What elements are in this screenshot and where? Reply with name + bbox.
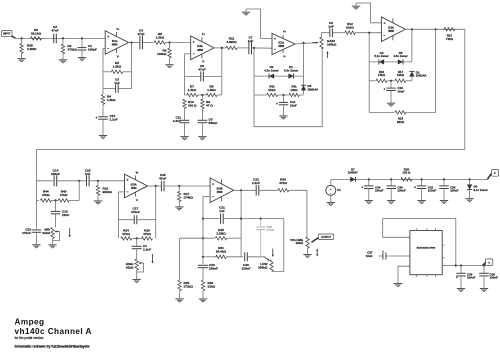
svg-text:47kΩ: 47kΩ <box>122 232 130 236</box>
svg-text:22uF: 22uF <box>290 103 297 107</box>
svg-text:IC2a: IC2a <box>278 40 284 44</box>
svg-text:IC3A: IC3A <box>131 182 137 186</box>
svg-text:IC2b: IC2b <box>388 26 394 30</box>
svg-text:1N4007: 1N4007 <box>348 171 359 175</box>
svg-text:100nF: 100nF <box>397 189 406 193</box>
svg-text:10kΩ: 10kΩ <box>397 73 405 77</box>
svg-text:1N914A: 1N914A <box>308 88 320 92</box>
svg-text:10uF: 10uF <box>366 254 373 258</box>
svg-text:47kΩ: 47kΩ <box>60 193 68 197</box>
svg-text:1nF: 1nF <box>114 81 120 85</box>
svg-text:1.5kΩ: 1.5kΩ <box>156 35 165 39</box>
svg-text:47kΩ: 47kΩ <box>42 193 50 197</box>
svg-text:4.3v Zener: 4.3v Zener <box>393 54 408 58</box>
svg-text:IC3B: IC3B <box>217 187 223 191</box>
svg-text:4.3v Zener: 4.3v Zener <box>264 68 279 72</box>
svg-text:220nF: 220nF <box>242 266 251 270</box>
svg-text:47nF: 47nF <box>137 32 144 36</box>
svg-text:+: + <box>456 276 458 280</box>
svg-text:1uF: 1uF <box>85 172 91 176</box>
svg-text:271kΩ: 271kΩ <box>184 285 194 289</box>
svg-text:3.3nF: 3.3nF <box>173 119 181 123</box>
svg-text:+: + <box>361 185 363 189</box>
svg-text:100nF: 100nF <box>450 189 459 193</box>
svg-text:1.5kΩ: 1.5kΩ <box>107 98 116 102</box>
svg-text:1.5kΩ: 1.5kΩ <box>113 65 122 69</box>
svg-text:274kΩ: 274kΩ <box>184 196 194 200</box>
svg-text:991Ω: 991Ω <box>397 120 405 124</box>
svg-text:47nF: 47nF <box>198 67 205 71</box>
svg-text:2.2MΩ: 2.2MΩ <box>27 47 37 51</box>
svg-text:100uF: 100uF <box>375 189 384 193</box>
svg-text:250kΩ: 250kΩ <box>258 266 268 270</box>
svg-text:4560: 4560 <box>131 186 137 190</box>
svg-text:2.2MΩ: 2.2MΩ <box>216 231 226 235</box>
svg-text:39.1kΩ: 39.1kΩ <box>31 32 42 36</box>
svg-text:22nF: 22nF <box>62 213 69 217</box>
svg-text:74kΩ: 74kΩ <box>446 37 454 41</box>
svg-text:1nF: 1nF <box>219 209 225 213</box>
svg-text:100 Ω: 100 Ω <box>402 171 411 175</box>
svg-text:4.99kΩ: 4.99kΩ <box>226 40 237 44</box>
svg-text:680nF: 680nF <box>209 121 218 125</box>
svg-text:91kΩ: 91kΩ <box>42 231 50 235</box>
svg-text:IC1b: IC1b <box>197 44 203 48</box>
svg-text:V-: V- <box>283 56 285 59</box>
svg-text:991kΩ: 991kΩ <box>103 190 113 194</box>
svg-text:10uF: 10uF <box>398 89 405 93</box>
svg-text:74kΩ: 74kΩ <box>378 73 386 77</box>
svg-text:371kΩ: 371kΩ <box>68 48 78 52</box>
svg-text:Schematic redrawn by fuzzhead&: Schematic redrawn by fuzzhead&dirtbastay… <box>15 345 90 349</box>
svg-text:2.2nF: 2.2nF <box>143 248 151 252</box>
svg-text:47 Ω: 47 Ω <box>206 103 213 107</box>
svg-text:91kΩ: 91kΩ <box>268 88 276 92</box>
svg-text:INPUT: INPUT <box>3 33 11 36</box>
svg-text:4560: 4560 <box>217 190 223 194</box>
svg-text:for the pedal version: for the pedal version <box>15 336 44 340</box>
svg-text:1.5kΩ: 1.5kΩ <box>188 88 197 92</box>
svg-text:+: + <box>96 116 98 120</box>
svg-text:V1: V1 <box>337 188 341 192</box>
svg-text:100uF: 100uF <box>428 189 437 193</box>
svg-text:V-: V- <box>136 199 138 202</box>
svg-text:100nF: 100nF <box>490 276 499 280</box>
svg-text:4558: 4558 <box>388 29 394 33</box>
svg-text:4558: 4558 <box>197 48 203 52</box>
svg-text:1N914A: 1N914A <box>416 74 428 78</box>
svg-text:1uF: 1uF <box>328 24 334 28</box>
svg-text:+: + <box>414 185 416 189</box>
svg-text:4.7nF: 4.7nF <box>267 228 275 232</box>
svg-text:4.3v Zener: 4.3v Zener <box>284 68 299 72</box>
svg-text:5.1v Zener: 5.1v Zener <box>374 54 389 58</box>
svg-text:100kΩ: 100kΩ <box>327 43 337 47</box>
svg-text:47nF: 47nF <box>159 177 166 181</box>
svg-text:MAX1044/ICL7660S: MAX1044/ICL7660S <box>417 247 436 250</box>
svg-text:+: + <box>384 88 386 92</box>
svg-text:4558: 4558 <box>278 44 284 48</box>
svg-text:47kΩ: 47kΩ <box>143 232 151 236</box>
svg-text:47nF: 47nF <box>51 29 58 33</box>
svg-text:10kΩ: 10kΩ <box>296 241 304 245</box>
svg-text:100uF: 100uF <box>467 276 476 280</box>
svg-text:100kΩ: 100kΩ <box>157 52 167 56</box>
svg-text:9.1v Zener: 9.1v Zener <box>474 188 489 192</box>
svg-text:91kΩ: 91kΩ <box>126 266 134 270</box>
svg-text:22kΩ: 22kΩ <box>208 285 216 289</box>
svg-text:100 Ω: 100 Ω <box>188 103 197 107</box>
svg-text:470nF: 470nF <box>22 231 31 235</box>
svg-text:2.2nF: 2.2nF <box>252 181 260 185</box>
svg-text:4560: 4560 <box>112 42 118 46</box>
svg-text:150nF: 150nF <box>209 266 218 270</box>
svg-text:100nF: 100nF <box>51 172 60 176</box>
svg-text:V-: V- <box>117 55 119 58</box>
svg-text:96.4kΩ: 96.4kΩ <box>216 250 227 254</box>
svg-text:47kΩ: 47kΩ <box>279 181 287 185</box>
svg-text:+: + <box>276 102 278 106</box>
svg-text:1.5kΩ: 1.5kΩ <box>207 88 216 92</box>
svg-text:vh140c Channel A: vh140c Channel A <box>15 327 92 336</box>
svg-text:OUTPUT: OUTPUT <box>321 236 331 239</box>
svg-text:100pF: 100pF <box>88 47 97 51</box>
svg-text:Ampeg: Ampeg <box>15 318 45 327</box>
svg-text:IC1a: IC1a <box>112 39 118 43</box>
svg-text:470nF: 470nF <box>131 210 140 214</box>
svg-text:10kΩ: 10kΩ <box>290 88 298 92</box>
svg-text:91kΩ: 91kΩ <box>346 26 354 30</box>
svg-text:1uF: 1uF <box>248 39 254 43</box>
svg-text:2.2uF: 2.2uF <box>110 118 118 122</box>
